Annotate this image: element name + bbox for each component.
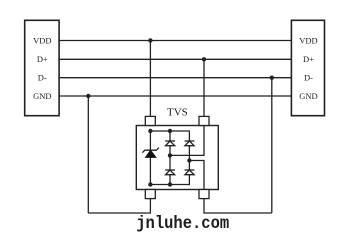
svg-text:VDD: VDD (33, 35, 51, 45)
wire D+ tap to TVS pin 2 (203, 59, 205, 116)
junction dot middle mid-node (168, 153, 172, 157)
watermark text jnluhe.com (136, 213, 229, 233)
svg-text:D+: D+ (303, 54, 314, 64)
svg-text:GND: GND (299, 91, 317, 101)
svg-text:jnluhe.com: jnluhe.com (136, 213, 229, 233)
connector J2 (right) (291, 20, 324, 115)
diode D2 (right top) (185, 141, 195, 146)
junction dot node D- (270, 76, 274, 80)
junction dot node VDD (148, 38, 152, 42)
junction dot node D+ (202, 57, 206, 61)
net GND bus wire (59, 95, 291, 97)
junction dot node GND (86, 94, 90, 98)
zener TVS diode Z1 (filled, cathode bar with bent ends) (142, 148, 159, 158)
svg-text:GND: GND (33, 91, 51, 101)
wire VDD tap to TVS pin 1 (149, 41, 151, 117)
wire pin2 to middle mid-node (170, 126, 204, 156)
net D- bus wire (59, 77, 291, 79)
net D+ bus wire (59, 58, 291, 60)
junction dot bottom rail at zener (148, 182, 152, 186)
wire zener branch (149, 131, 151, 185)
connector J1 (left) (25, 20, 59, 115)
wire bottom right run to TVS pin 3 (204, 199, 272, 213)
wire GND tap down (87, 96, 89, 213)
diode D1 (middle top) (165, 141, 175, 146)
net VDD bus wire (59, 40, 291, 42)
wire bottom left run to TVS pin 4 (88, 199, 150, 213)
diode D3 (middle bottom) (165, 170, 175, 175)
TVS U1 package body (136, 126, 218, 190)
wire right diode branch (188, 141, 190, 175)
svg-text:D+: D+ (37, 54, 48, 64)
wire middle diode branch (169, 131, 171, 185)
wire right mid-node to pin3 (189, 161, 204, 190)
U1 pin 2 pad (top right) (199, 116, 209, 125)
wire D- tap down (271, 78, 273, 213)
junction dot top rail at middle branch (168, 129, 172, 133)
wire bottom rail inside U1 (150, 175, 189, 185)
diode D4 (right bottom) (185, 170, 195, 175)
junction dot right mid-node (187, 158, 191, 162)
junction dot top rail at zener (148, 129, 152, 133)
U1 pin 1 pad (top left) (145, 116, 155, 125)
svg-text:VDD: VDD (299, 35, 317, 45)
svg-text:D-: D- (38, 73, 47, 83)
junction dot bottom rail at middle branch (168, 182, 172, 186)
wire top rail inside U1 (150, 131, 189, 141)
U1 pin 3 pad (bottom right) (199, 190, 209, 199)
U1 pin 4 pad (bottom left) (145, 190, 155, 199)
svg-text:TVS: TVS (167, 107, 188, 119)
svg-text:D-: D- (304, 73, 313, 83)
